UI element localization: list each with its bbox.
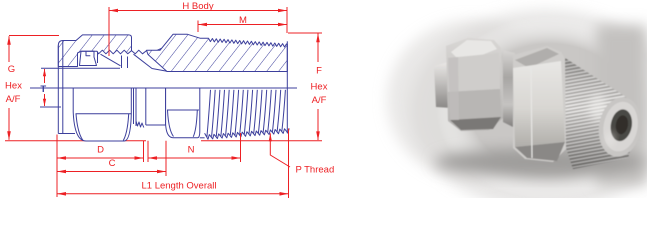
svg-text:P Thread: P Thread	[296, 165, 335, 176]
svg-text:N: N	[188, 145, 195, 156]
svg-text:T: T	[40, 84, 46, 95]
svg-text:G: G	[8, 64, 15, 75]
svg-text:D: D	[97, 145, 104, 156]
svg-text:C: C	[109, 158, 116, 169]
svg-text:A/F: A/F	[312, 95, 327, 106]
svg-text:A/F: A/F	[6, 94, 21, 105]
svg-text:Hex: Hex	[311, 82, 328, 93]
svg-text:H Body: H Body	[182, 1, 213, 12]
svg-text:M: M	[239, 15, 247, 26]
svg-text:Hex: Hex	[5, 81, 22, 92]
svg-text:L1 Length Overall: L1 Length Overall	[142, 181, 217, 192]
svg-text:F: F	[316, 66, 322, 77]
